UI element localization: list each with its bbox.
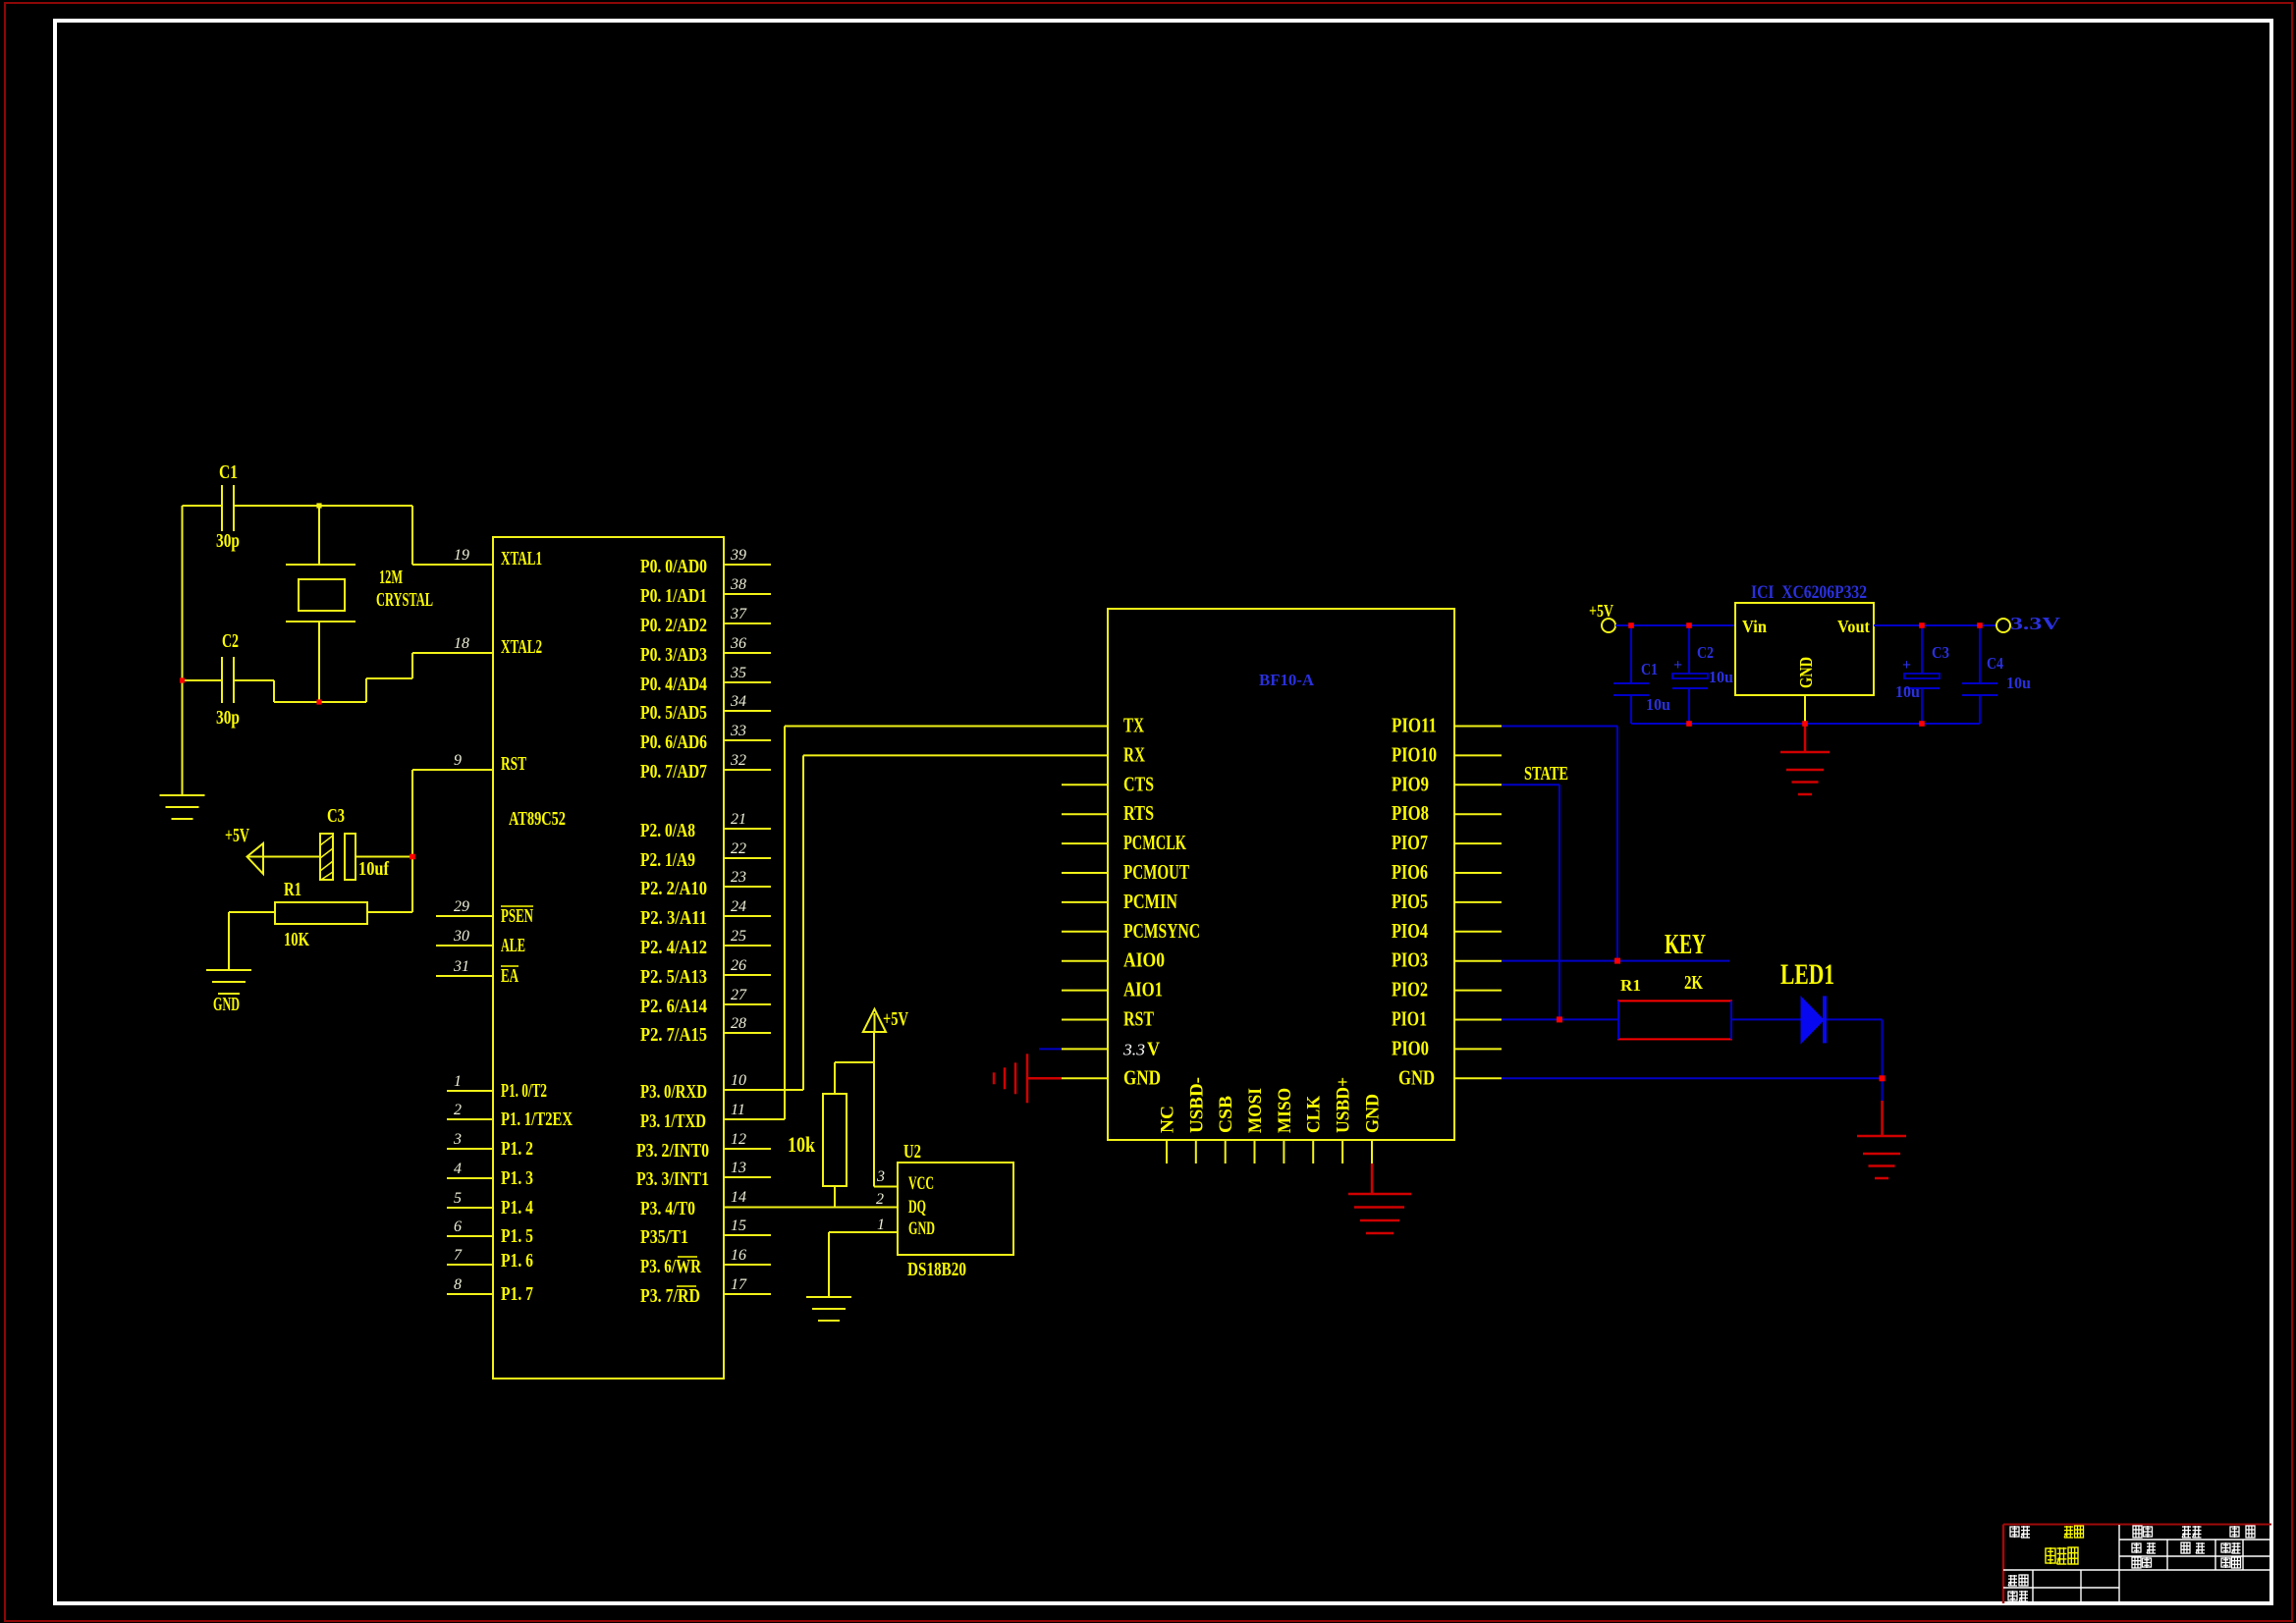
svg-text:MOSI: MOSI — [1245, 1088, 1266, 1133]
capacitor C1 — [221, 485, 223, 531]
svg-text:PIO11: PIO11 — [1392, 714, 1437, 737]
pin PIO3 (BF10 right) — [1454, 960, 1502, 962]
pin NC (BF10 bottom) — [1166, 1140, 1168, 1163]
pin PIO9 (BF10 right) — [1454, 784, 1502, 785]
svg-text:3: 3 — [876, 1168, 885, 1185]
svg-text:P2. 7/A15: P2. 7/A15 — [640, 1024, 707, 1046]
svg-text:2: 2 — [876, 1191, 884, 1208]
svg-text:1: 1 — [877, 1217, 885, 1233]
pin PIO2 (BF10 right) — [1454, 990, 1502, 992]
svg-text:GND: GND — [1123, 1065, 1161, 1089]
title text: dianlutu (circuit diagram) — [2046, 1547, 2055, 1564]
svg-text:MISO: MISO — [1275, 1088, 1295, 1133]
pin CTS (BF10 left) — [1062, 784, 1108, 785]
pin CSB (BF10 bottom) — [1225, 1140, 1227, 1163]
svg-text:+: + — [1902, 657, 1911, 674]
ground (LED1) — [1857, 1136, 1906, 1178]
svg-text:C2: C2 — [1697, 643, 1714, 662]
wire P3.4/T0 to DQ — [724, 1207, 898, 1209]
svg-text:12M: 12M — [379, 567, 403, 588]
svg-text:2K: 2K — [1684, 972, 1703, 994]
svg-text:P2. 5/A13: P2. 5/A13 — [640, 966, 707, 988]
svg-text:VCC: VCC — [908, 1173, 934, 1194]
wire R1 to LED1 — [1731, 1018, 1801, 1020]
wire: left vertical to ground — [182, 506, 184, 794]
svg-text:GND: GND — [908, 1218, 935, 1239]
svg-text:5: 5 — [454, 1190, 462, 1207]
wire: C1 top rail to XTAL1 — [183, 505, 223, 507]
capacitor C2 (reg, polar) — [1688, 625, 1690, 674]
svg-text:PIO4: PIO4 — [1392, 919, 1428, 943]
net KEY: wire PIO3 — [1502, 960, 1729, 962]
svg-text:P3. 4/T0: P3. 4/T0 — [640, 1198, 695, 1219]
pin 12 P3. 2/INT0 (MCU right) — [724, 1148, 771, 1150]
pin GND (BF10 right) — [1454, 1077, 1502, 1079]
svg-text:R1: R1 — [284, 879, 301, 900]
terminal 3.3V — [1996, 619, 2010, 632]
svg-text:18: 18 — [454, 635, 469, 652]
svg-text:PIO7: PIO7 — [1392, 831, 1428, 854]
svg-text:STATE: STATE — [1524, 763, 1568, 784]
pin 21 P2. 0/A8 (MCU right) — [724, 828, 771, 830]
svg-text:C1: C1 — [219, 461, 238, 483]
wire PIO1 to R1 — [1502, 1018, 1618, 1020]
svg-text:PIO0: PIO0 — [1392, 1036, 1429, 1059]
pin 6 P1. 5 (MCU left) — [447, 1235, 493, 1237]
svg-text:GND: GND — [1796, 657, 1816, 688]
svg-text:10u: 10u — [1895, 682, 1920, 701]
title text row2: gong zhang / di zhang / bili — [2132, 1542, 2141, 1553]
wire C3 to RST vertical — [355, 856, 412, 858]
svg-text:AIO1: AIO1 — [1123, 978, 1163, 1001]
pin AIO0 (BF10 left) — [1062, 960, 1108, 962]
pin GND (BF10 left) — [1062, 1077, 1108, 1079]
pin MOSI (BF10 bottom) — [1254, 1140, 1256, 1163]
wire GND (BF10 right) — [1502, 1077, 1883, 1079]
pin MISO (BF10 bottom) — [1283, 1140, 1285, 1163]
svg-text:P1. 7: P1. 7 — [501, 1283, 533, 1305]
svg-text:P1. 0/T2: P1. 0/T2 — [501, 1080, 547, 1102]
pin 33 P0. 6/AD6 (MCU right) — [724, 739, 771, 741]
diode LED1 — [1801, 997, 1824, 1043]
pin 32 P0. 7/AD7 (MCU right) — [724, 769, 771, 771]
svg-text:P2. 0/A8: P2. 0/A8 — [640, 820, 695, 841]
resistor R1 2K — [1618, 1001, 1731, 1039]
svg-text:7: 7 — [454, 1247, 463, 1264]
svg-text:3.3: 3.3 — [1122, 1040, 1145, 1058]
capacitor C2 — [221, 657, 223, 703]
pin 15 P35/T1 (MCU right) — [724, 1234, 771, 1236]
ground (regulator) — [1780, 752, 1830, 794]
svg-text:PIO3: PIO3 — [1392, 948, 1428, 972]
svg-text:6: 6 — [454, 1218, 462, 1235]
svg-text:30p: 30p — [216, 530, 240, 552]
svg-text:P1. 5: P1. 5 — [501, 1225, 533, 1247]
pin 3 P1. 2 (MCU left) — [447, 1148, 493, 1150]
wire +5V to Vin — [1615, 624, 1735, 626]
pin RX (BF10 left) — [803, 754, 1108, 756]
svg-text:+5V: +5V — [225, 825, 249, 846]
svg-text:10u: 10u — [1709, 668, 1733, 686]
pin PCMIN (BF10 left) — [1062, 901, 1108, 903]
svg-text:P2. 1/A9: P2. 1/A9 — [640, 849, 695, 871]
svg-text:C3: C3 — [1932, 643, 1949, 662]
pin 24 P2. 3/A11 (MCU right) — [724, 915, 771, 917]
svg-text:30: 30 — [453, 928, 469, 945]
svg-text:P0. 4/AD4: P0. 4/AD4 — [640, 674, 707, 695]
net STATE: wire PIO9 — [1502, 784, 1559, 785]
svg-text:35: 35 — [730, 665, 746, 681]
svg-text:RX: RX — [1123, 742, 1145, 766]
svg-text:U2: U2 — [903, 1141, 921, 1163]
svg-text:10u: 10u — [1646, 695, 1670, 714]
pin 8 P1. 7 (MCU left) — [447, 1293, 493, 1295]
ground (crystal caps) — [160, 795, 205, 819]
svg-text:9: 9 — [454, 752, 462, 769]
svg-text:PCMCLK: PCMCLK — [1123, 831, 1186, 854]
pin 35 P0. 4/AD4 (MCU right) — [724, 681, 771, 683]
wire 10k bottom — [834, 1186, 836, 1208]
wire BF10 bottom GND to ground — [1371, 1163, 1374, 1194]
pin 36 P0. 3/AD3 (MCU right) — [724, 652, 771, 654]
svg-text:19: 19 — [454, 547, 469, 564]
svg-text:+5V: +5V — [1589, 601, 1613, 621]
capacitor C3 (reg, polar) — [1921, 625, 1923, 674]
svg-text:P0. 5/AD5: P0. 5/AD5 — [640, 702, 707, 724]
pin GND (BF10 bottom) — [1371, 1140, 1373, 1163]
pin PIO11 (BF10 right) — [1454, 726, 1502, 728]
pin 1 P1. 0/T2 (MCU left) — [447, 1090, 493, 1092]
svg-text:P0. 1/AD1: P0. 1/AD1 — [640, 585, 707, 607]
IC IC1 XC6206P332 regulator body — [1735, 603, 1874, 695]
ground (R1) — [206, 970, 251, 994]
svg-text:GND: GND — [213, 994, 240, 1015]
wire RST pin — [412, 769, 493, 771]
svg-text:USBD+: USBD+ — [1334, 1077, 1354, 1133]
svg-text:C3: C3 — [327, 805, 345, 827]
crystal Y1 12M — [286, 564, 355, 566]
pin 34 P0. 5/AD5 (MCU right) — [724, 710, 771, 712]
svg-text:1: 1 — [454, 1073, 462, 1090]
svg-text:P1. 4: P1. 4 — [501, 1197, 533, 1218]
svg-text:10K: 10K — [284, 929, 309, 950]
pin CLK (BF10 bottom) — [1312, 1140, 1314, 1163]
pin USBD+ (BF10 bottom) — [1341, 1140, 1343, 1163]
wire +5V to C3 — [247, 856, 321, 858]
svg-text:CLK: CLK — [1304, 1096, 1325, 1133]
svg-text:P0. 3/AD3: P0. 3/AD3 — [640, 644, 707, 666]
title block — [2003, 1524, 2271, 1526]
pin 38 P0. 1/AD1 (MCU right) — [724, 593, 771, 595]
svg-text:C4: C4 — [1987, 654, 2003, 673]
svg-text:PIO6: PIO6 — [1392, 860, 1428, 884]
pin 27 P2. 6/A14 (MCU right) — [724, 1003, 771, 1005]
svg-text:GND: GND — [1398, 1065, 1435, 1089]
svg-text:P35/T1: P35/T1 — [640, 1226, 688, 1248]
title text row5: jiaohe — [2008, 1591, 2017, 1601]
pin 5 P1. 4 (MCU left) — [447, 1207, 493, 1209]
ground (DS18B20) — [806, 1297, 851, 1321]
svg-text:RTS: RTS — [1123, 801, 1154, 825]
svg-text:P3. 3/INT1: P3. 3/INT1 — [636, 1168, 709, 1190]
svg-text:33: 33 — [730, 723, 746, 739]
svg-text:KEY: KEY — [1665, 930, 1706, 960]
svg-text:32: 32 — [730, 752, 746, 769]
pin PIO4 (BF10 right) — [1454, 931, 1502, 933]
svg-text:38: 38 — [730, 576, 746, 593]
pin 16 P3. 6/WR (MCU right) — [724, 1264, 771, 1266]
wire branch to 10k — [835, 1061, 874, 1063]
wire R1 to ground — [228, 912, 230, 969]
svg-text:P0. 2/AD2: P0. 2/AD2 — [640, 615, 707, 636]
pin PCMOUT (BF10 left) — [1062, 872, 1108, 874]
wire VCC stub — [874, 1186, 898, 1188]
resistor 10k pull-up — [823, 1094, 847, 1186]
wire crystal bottom branch — [318, 622, 320, 702]
pin PIO6 (BF10 right) — [1454, 872, 1502, 874]
wire: C2 / XTAL2 zig-zag — [183, 679, 223, 681]
svg-text:12: 12 — [731, 1131, 746, 1148]
bottom rail (reg caps) — [1631, 723, 1980, 725]
pin 23 P2. 2/A10 (MCU right) — [724, 886, 771, 888]
title text row4: zhitu — [2008, 1575, 2017, 1586]
svg-text:P0. 7/AD7: P0. 7/AD7 — [640, 761, 707, 783]
svg-text:PIO2: PIO2 — [1392, 978, 1428, 1001]
pin 3.3V (BF10 left) — [1039, 1048, 1062, 1050]
wire XTAL2 pin — [412, 652, 493, 654]
svg-text:P3. 7/RD: P3. 7/RD — [640, 1285, 700, 1307]
power +5V flag (reset) — [247, 843, 264, 874]
svg-text:4: 4 — [454, 1161, 462, 1177]
svg-text:30p: 30p — [216, 707, 240, 729]
wire to LED ground — [1882, 1078, 1884, 1101]
terminal +5V — [1602, 619, 1615, 632]
svg-text:CRYSTAL: CRYSTAL — [376, 589, 433, 611]
pin 22 P2. 1/A9 (MCU right) — [724, 857, 771, 859]
ground (BF10 GND left, sideways red) — [994, 1054, 1062, 1103]
svg-text:P3. 1/TXD: P3. 1/TXD — [640, 1110, 706, 1132]
svg-text:8: 8 — [454, 1276, 462, 1293]
wire reg GND pin — [1804, 695, 1806, 724]
svg-text:15: 15 — [731, 1217, 746, 1234]
svg-text:XTAL1: XTAL1 — [501, 548, 542, 569]
svg-text:ALE: ALE — [501, 935, 525, 956]
svg-text:P1. 1/T2EX: P1. 1/T2EX — [501, 1109, 573, 1130]
pin USBD- (BF10 bottom) — [1195, 1140, 1197, 1163]
svg-text:27: 27 — [731, 987, 747, 1003]
svg-text:TX: TX — [1123, 714, 1144, 737]
svg-text:R1: R1 — [1620, 976, 1641, 995]
svg-text:P2. 4/A12: P2. 4/A12 — [640, 937, 707, 958]
svg-text:P3. 6/WR: P3. 6/WR — [640, 1256, 701, 1277]
pin PIO10 (BF10 right) — [1454, 754, 1502, 756]
svg-text:RST: RST — [501, 753, 526, 775]
svg-text:25: 25 — [731, 928, 746, 945]
pin PCMCLK (BF10 left) — [1062, 842, 1108, 844]
wire: RST vertical — [411, 770, 413, 912]
pin RTS (BF10 left) — [1062, 813, 1108, 815]
power +5V flag (DS18B20) — [863, 1009, 886, 1032]
svg-text:37: 37 — [730, 606, 747, 622]
wire LED1 cathode — [1827, 1018, 1883, 1020]
pin 29 PSEN (MCU left) — [436, 915, 493, 917]
pin 28 P2. 7/A15 (MCU right) — [724, 1032, 771, 1034]
IC U1 AT89C52 body — [493, 537, 724, 1379]
svg-text:P0. 0/AD0: P0. 0/AD0 — [640, 556, 707, 577]
svg-text:C2: C2 — [222, 630, 239, 652]
svg-text:PIO10: PIO10 — [1392, 742, 1437, 766]
pin 11 P3. 1/TXD (MCU right) — [724, 1118, 785, 1120]
svg-text:NC: NC — [1158, 1106, 1178, 1133]
svg-text:3: 3 — [453, 1131, 462, 1148]
svg-text:P2. 6/A14: P2. 6/A14 — [640, 996, 707, 1017]
svg-text:P3. 2/INT0: P3. 2/INT0 — [636, 1140, 709, 1162]
svg-text:PSEN: PSEN — [501, 905, 533, 927]
svg-text:P2. 2/A10: P2. 2/A10 — [640, 878, 707, 899]
svg-text:+5V: +5V — [883, 1008, 908, 1030]
svg-text:LED1: LED1 — [1780, 958, 1834, 991]
svg-text:PIO9: PIO9 — [1392, 772, 1429, 795]
pin 30 ALE (MCU left) — [436, 945, 493, 947]
svg-text:C1: C1 — [1641, 660, 1658, 678]
pin PIO1 (BF10 right) — [1454, 1019, 1502, 1021]
svg-text:P3. 0/RXD: P3. 0/RXD — [640, 1081, 707, 1103]
resistor R1 10K — [229, 911, 275, 913]
pin TX (BF10 left) — [785, 726, 1108, 728]
svg-text:P2. 3/A11: P2. 3/A11 — [640, 907, 707, 929]
wire +5V down to VCC — [873, 1032, 875, 1187]
title text row1: xuhao mingcheng shuliang cailiao beizhu — [2010, 1526, 2019, 1538]
pin 2 P1. 1/T2EX (MCU left) — [447, 1118, 493, 1120]
svg-text:P0. 6/AD6: P0. 6/AD6 — [640, 731, 707, 753]
wire GND pin of U2 — [829, 1231, 898, 1233]
pin 37 P0. 2/AD2 (MCU right) — [724, 622, 771, 624]
IC U2 DS18B20 body — [898, 1163, 1013, 1255]
svg-text:USBD-: USBD- — [1186, 1077, 1207, 1133]
pin RST (BF10 left) — [1062, 1019, 1108, 1021]
pin PIO7 (BF10 right) — [1454, 842, 1502, 844]
svg-text:XTAL2: XTAL2 — [501, 636, 542, 658]
svg-text:P1. 6: P1. 6 — [501, 1250, 533, 1271]
pin PCMSYNC (BF10 left) — [1062, 931, 1108, 933]
ground (BF10 bottom GND) — [1348, 1194, 1411, 1233]
svg-text:PIO1: PIO1 — [1392, 1007, 1427, 1031]
pin 31 EA (MCU left) — [436, 975, 493, 977]
wire Vout to 3.3V — [1874, 624, 1996, 626]
svg-text:36: 36 — [730, 635, 746, 652]
svg-text:Vin: Vin — [1742, 617, 1767, 636]
svg-text:DS18B20: DS18B20 — [907, 1259, 966, 1280]
svg-text:34: 34 — [730, 693, 746, 710]
svg-text:PCMSYNC: PCMSYNC — [1123, 919, 1200, 943]
svg-text:3.3V: 3.3V — [2010, 614, 2060, 633]
svg-text:CSB: CSB — [1216, 1096, 1236, 1133]
pin 7 P1. 6 (MCU left) — [447, 1264, 493, 1266]
svg-text:11: 11 — [731, 1102, 745, 1118]
svg-text:PCMIN: PCMIN — [1123, 890, 1177, 913]
svg-text:AIO0: AIO0 — [1123, 948, 1165, 972]
svg-text:10k: 10k — [788, 1132, 816, 1157]
svg-text:21: 21 — [731, 811, 746, 828]
svg-text:EA: EA — [501, 965, 519, 987]
module U3 BF10-A body — [1108, 609, 1454, 1140]
pin AIO1 (BF10 left) — [1062, 990, 1108, 992]
svg-text:26: 26 — [731, 957, 746, 974]
pin 26 P2. 5/A13 (MCU right) — [724, 974, 771, 976]
svg-text:AT89C52: AT89C52 — [509, 808, 566, 830]
svg-text:39: 39 — [730, 547, 746, 564]
svg-text:P1. 3: P1. 3 — [501, 1167, 533, 1189]
svg-text:2: 2 — [454, 1102, 462, 1118]
capacitor C3 10uf electrolytic — [320, 834, 333, 880]
svg-text:ICI XC6206P332: ICI XC6206P332 — [1751, 582, 1867, 603]
svg-text:PIO5: PIO5 — [1392, 890, 1428, 913]
wire XTAL1 pin — [412, 564, 493, 566]
capacitor C4 (reg) — [1979, 625, 1981, 683]
svg-text:PIO8: PIO8 — [1392, 801, 1429, 825]
svg-text:+: + — [1673, 657, 1682, 674]
svg-text:14: 14 — [731, 1189, 746, 1206]
svg-text:17: 17 — [731, 1276, 747, 1293]
pin 25 P2. 4/A12 (MCU right) — [724, 945, 771, 947]
svg-text:29: 29 — [454, 898, 469, 915]
title text row3: shuliang / tuhao — [2132, 1557, 2141, 1568]
wire reg GND to ground — [1804, 724, 1807, 752]
svg-text:10: 10 — [731, 1072, 746, 1089]
svg-text:Vout: Vout — [1837, 617, 1870, 636]
svg-text:P1. 2: P1. 2 — [501, 1138, 533, 1160]
svg-text:16: 16 — [731, 1247, 746, 1264]
svg-text:V: V — [1147, 1038, 1160, 1059]
svg-text:28: 28 — [731, 1015, 746, 1032]
pin 10 P3. 0/RXD (MCU right) — [724, 1089, 803, 1091]
svg-text:31: 31 — [453, 958, 469, 975]
svg-text:23: 23 — [731, 869, 746, 886]
svg-text:CTS: CTS — [1123, 772, 1154, 795]
capacitor C1 (reg) — [1630, 625, 1632, 683]
svg-text:22: 22 — [731, 840, 746, 857]
svg-text:BF10-A: BF10-A — [1259, 671, 1315, 689]
svg-text:10uf: 10uf — [358, 858, 389, 880]
svg-text:13: 13 — [731, 1160, 746, 1176]
wire crystal top branch — [318, 506, 320, 565]
svg-text:PCMOUT: PCMOUT — [1123, 860, 1189, 884]
pin 39 P0. 0/AD0 (MCU right) — [724, 564, 771, 566]
wire PIO11 to KEY line — [1502, 726, 1617, 728]
pin PIO8 (BF10 right) — [1454, 813, 1502, 815]
svg-text:RST: RST — [1123, 1007, 1154, 1031]
svg-text:10u: 10u — [2006, 674, 2031, 692]
svg-text:DQ: DQ — [908, 1197, 926, 1217]
pin 4 P1. 3 (MCU left) — [447, 1177, 493, 1179]
pin 17 P3. 7/RD (MCU right) — [724, 1293, 771, 1295]
svg-text:24: 24 — [731, 898, 746, 915]
svg-text:GND: GND — [1363, 1094, 1384, 1133]
pin PIO5 (BF10 right) — [1454, 901, 1502, 903]
pin PIO0 (BF10 right) — [1454, 1048, 1502, 1050]
pin 13 P3. 3/INT1 (MCU right) — [724, 1176, 771, 1178]
